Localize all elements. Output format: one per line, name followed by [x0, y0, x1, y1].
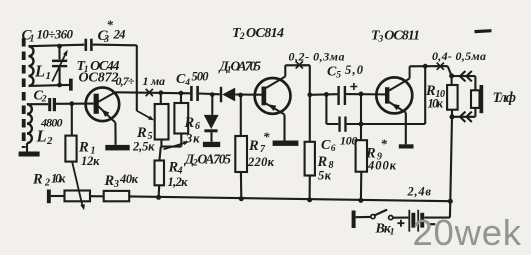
inductor L2	[27, 104, 32, 143]
svg-text:С5: С5	[327, 65, 341, 81]
node: top line vertical	[423, 64, 428, 69]
node: bus R4	[156, 195, 161, 200]
wire L2 bottom	[26, 143, 28, 151]
node: rail D2	[210, 92, 215, 97]
svg-text:Т3ОС811: Т3ОС811	[371, 29, 420, 45]
collector rail of T1	[115, 92, 261, 94]
wire T2 collector loop	[285, 65, 310, 95]
capacitor C5	[337, 86, 339, 105]
ground bar (L2 bottom)	[19, 152, 40, 157]
ground bar (D2)	[203, 142, 220, 147]
svg-text:С4: С4	[176, 72, 190, 88]
node: bus right corner	[448, 199, 453, 204]
node: rail R7	[238, 93, 243, 98]
node: R10 top	[449, 73, 454, 78]
resistor R8	[309, 95, 311, 142]
svg-text:2,5к: 2,5к	[132, 140, 155, 154]
wire T3 collector top line	[410, 66, 452, 76]
svg-text:0,4- 0,5ма: 0,4- 0,5ма	[432, 49, 486, 63]
node: rail R6	[179, 91, 184, 96]
resistor R10	[451, 76, 453, 85]
ground bar (battery plus)	[352, 211, 356, 229]
svg-text:*: *	[107, 17, 114, 32]
svg-text:*: *	[381, 136, 388, 151]
wiper arrow into R5	[137, 111, 151, 119]
svg-text:С1: С1	[22, 28, 35, 45]
svg-text:1 ма: 1 ма	[143, 74, 166, 88]
node: R10 bottom	[450, 114, 455, 119]
svg-text:Тлф: Тлф	[493, 90, 517, 106]
battery 2.4V	[420, 213, 424, 228]
svg-text:С6: С6	[321, 138, 336, 154]
svg-text:С2: С2	[34, 89, 47, 105]
resistor R5	[160, 93, 162, 104]
ground bar (tank bottom chassis)	[69, 79, 73, 91]
small dash top right	[475, 29, 492, 33]
wire C2 to T1 base	[56, 103, 94, 105]
wire phones bottom	[452, 108, 475, 117]
svg-text:R4: R4	[168, 160, 183, 177]
R6 arrow	[164, 143, 186, 150]
connector chevrons bottom	[460, 112, 472, 122]
capacitor C3	[85, 39, 88, 51]
wire right vertical to battery	[424, 117, 452, 218]
headphones Tlf	[471, 90, 480, 108]
svg-text:2,4в: 2,4в	[407, 185, 432, 199]
rail T2 collector to T3 base	[310, 93, 386, 96]
wires R5/R6 bottoms to R4	[159, 134, 181, 161]
measuring point x3 (0.4-0.5 mA)	[437, 63, 444, 70]
measuring point x1 (1 mA)	[146, 89, 153, 96]
node: bus R8	[307, 197, 312, 202]
svg-text:20wek: 20wek	[413, 212, 522, 253]
capacitor C2	[27, 103, 48, 105]
bottom bus	[129, 196, 450, 201]
wire base-line vertical	[424, 66, 426, 124]
node: rail R5	[158, 90, 163, 95]
diode D2	[211, 95, 213, 115]
svg-text:5,0: 5,0	[345, 63, 364, 77]
minus sign battery	[427, 223, 435, 225]
node: base of T1 / R1 top	[69, 101, 74, 106]
svg-text:500: 500	[192, 70, 210, 84]
resistor R9	[360, 94, 362, 140]
potentiometer R2	[65, 191, 91, 202]
wire R2 to R3	[90, 195, 104, 197]
svg-text:24: 24	[113, 27, 127, 42]
wire phones top	[452, 76, 476, 90]
wire T3 emitter to ground	[405, 113, 407, 145]
wire tank top	[29, 45, 85, 47]
svg-text:10к: 10к	[51, 172, 66, 186]
diode D1	[220, 87, 222, 103]
potentiometer R2 wiper arrow	[72, 163, 82, 207]
svg-text:0,2- 0,3ма: 0,2- 0,3ма	[289, 50, 345, 64]
ground bar (T2 emitter)	[273, 141, 299, 146]
transistor T2	[255, 78, 291, 114]
svg-text:220к: 220к	[247, 155, 275, 169]
svg-text:ОС872: ОС872	[79, 71, 119, 86]
measuring point x2 (0.2-0.3 mA)	[296, 61, 303, 68]
resistor R6	[180, 93, 182, 103]
svg-text:Д1ОА705: Д1ОА705	[218, 59, 262, 76]
node: T2 collector rail	[307, 92, 312, 97]
svg-text:L2: L2	[36, 127, 54, 148]
capacitor C6 on lower wire	[326, 94, 338, 124]
connector chevrons top	[460, 71, 472, 81]
ferrite rod (dashed antenna line)	[22, 38, 26, 148]
resistor R4	[155, 161, 165, 186]
plus sign battery	[397, 220, 404, 227]
resistor R1	[71, 104, 73, 136]
transistor T3	[376, 77, 412, 113]
resistor R3	[104, 191, 130, 201]
svg-text:40к: 40к	[119, 172, 139, 186]
node: after C5	[359, 92, 364, 97]
wire chassis to R2	[51, 195, 65, 197]
svg-text:Д2ОА705: Д2ОА705	[183, 152, 231, 169]
svg-text:Т2ОС814: Т2ОС814	[232, 26, 284, 42]
transistor T1	[86, 88, 120, 122]
svg-text:12к: 12к	[81, 154, 100, 168]
node: bus R7	[239, 196, 244, 201]
svg-text:0,7÷: 0,7÷	[116, 74, 135, 88]
switch Vk1	[389, 216, 393, 220]
node: C6 right / R9	[359, 122, 364, 127]
inductor L1	[29, 46, 34, 86]
svg-text:1,2к: 1,2к	[168, 175, 189, 189]
svg-text:R2: R2	[32, 172, 50, 189]
svg-text:L1: L1	[34, 62, 51, 83]
svg-text:*: *	[263, 129, 270, 144]
wire T2 emitter to ground	[283, 115, 285, 141]
node: C6 left branch	[324, 92, 329, 97]
svg-text:10÷360: 10÷360	[37, 27, 74, 42]
ground bar (T1 emitter)	[105, 145, 129, 151]
wire tank bottom	[29, 85, 70, 86]
node: bus R9	[358, 198, 363, 203]
svg-text:3к: 3к	[185, 132, 200, 146]
svg-text:400к: 400к	[367, 159, 397, 173]
ground bar (left of R2)	[47, 190, 51, 204]
svg-text:R6: R6	[184, 115, 201, 132]
svg-text:100: 100	[340, 134, 358, 148]
capacitor C4	[190, 86, 193, 101]
node: C1 top junction	[57, 44, 62, 49]
node: C1 bottom junction	[57, 83, 62, 88]
ground bar (T3 emitter)	[399, 144, 414, 148]
resistor R7	[240, 95, 242, 136]
svg-text:Вк1: Вк1	[375, 222, 395, 238]
svg-text:5к: 5к	[318, 169, 332, 183]
svg-text:10к: 10к	[428, 97, 444, 111]
wire C3 to collector rail (feedback)	[93, 45, 137, 111]
wire T1 emitter to ground	[114, 123, 116, 145]
svg-text:R3: R3	[104, 173, 120, 190]
capacitor C1 (variable)	[58, 46, 60, 85]
